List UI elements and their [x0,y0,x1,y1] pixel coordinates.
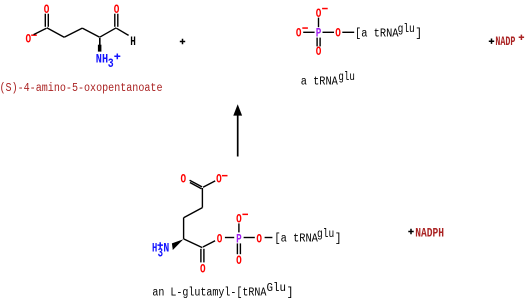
double bond C=O (ester carbonyl) [200,249,202,263]
double bond C=O (slanted) [190,180,202,187]
svg-text:O: O [256,231,262,246]
svg-text:]: ] [287,286,294,299]
svg-text:3: 3 [158,246,164,261]
wire chain: down to stereocenter [183,218,185,239]
svg-text:O: O [316,44,322,59]
wire chain C2-C3 [64,28,82,37]
svg-text:Glu: Glu [267,282,287,295]
phosphate left minus charge [302,27,308,29]
phosphate minus charge (bottom molecule) [242,214,248,216]
double bond P=O [316,38,318,47]
bond C-O- [203,181,215,187]
bond carbonyl C to bridging O [203,241,215,247]
bond O-[a tRNA] (bottom molecule) [265,237,273,239]
bond Otop-P [318,18,320,28]
double bond C5=O [114,14,116,27]
bond C5-H [116,28,128,35]
svg-text:O: O [181,172,187,187]
svg-text:O: O [217,231,223,246]
carboxylate minus charge [31,34,37,36]
svg-text:O: O [200,262,206,277]
bond Oleft-P [303,31,314,33]
wire chain: C down [201,188,203,208]
svg-text:O: O [236,253,242,268]
wedge bond C4 to N [99,38,101,45]
bond P-Oright [323,31,335,33]
bond stereocenter to carbonyl C [184,239,203,248]
wire chain: diagonal [184,208,203,218]
bond O- to C1 [34,28,47,34]
wire chain C1-C2 [47,28,64,37]
svg-text:H: H [152,241,157,256]
svg-text:a tRNA: a tRNA [301,76,338,89]
bond P-Oright (bottom molecule) [244,237,255,239]
glutamyl carboxylate minus charge [222,175,228,177]
bond O-[a tRNA] [342,31,354,33]
svg-text:NH: NH [96,52,108,67]
plus sign before NADPH [408,229,413,234]
phosphate top minus charge [322,8,328,10]
wire chain C3-C4 [82,28,99,37]
svg-text:O: O [335,25,341,40]
wire chain C4-C5 [100,28,117,37]
svg-text:3: 3 [108,56,114,71]
svg-text:]: ] [335,233,342,246]
svg-text:O: O [26,32,32,47]
svg-text:glu: glu [317,228,334,241]
svg-text:NADPH: NADPH [415,226,444,241]
svg-text:glu: glu [398,23,415,36]
double bond P=O (bottom molecule) [236,243,238,254]
svg-text:(S)-4-amino-5-oxopentanoate: (S)-4-amino-5-oxopentanoate [0,82,163,95]
bond Otop-P (bottom molecule) [238,223,240,232]
svg-text:an L-glutamyl-[tRNA: an L-glutamyl-[tRNA [152,286,266,299]
wedge bond to H3N [172,239,184,250]
svg-text:N: N [163,241,169,256]
plus sign between products [180,39,185,44]
svg-text:NADP: NADP [495,34,515,49]
bond O-P [225,237,234,239]
svg-text:glu: glu [338,71,355,84]
double bond C1=O [44,14,46,27]
svg-text:[a tRNA: [a tRNA [274,233,318,246]
reaction arrow (upward) [237,115,239,157]
svg-text:[a tRNA: [a tRNA [355,28,399,41]
plus sign before NADP+ [489,39,494,44]
svg-text:O: O [216,172,222,187]
svg-text:]: ] [415,28,422,41]
svg-text:H: H [130,34,136,49]
svg-text:O: O [296,25,302,40]
